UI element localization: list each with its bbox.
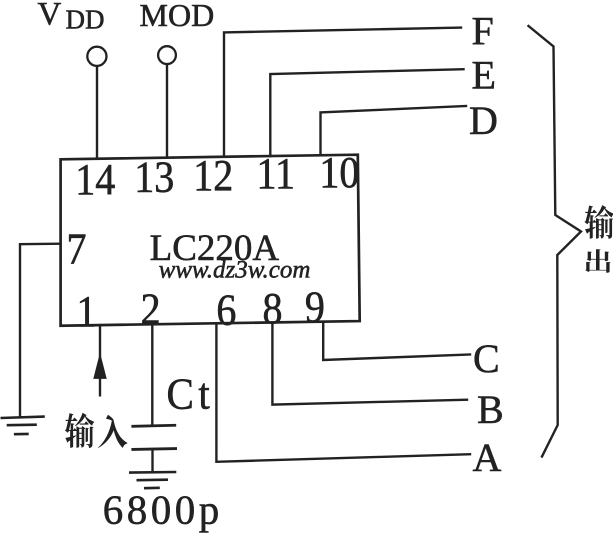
svg-text:1: 1 <box>76 287 96 337</box>
svg-text:Ct: Ct <box>167 370 215 419</box>
wire pin14 to VDD terminal <box>96 67 98 159</box>
wire pin12 to F <box>224 28 461 157</box>
input arrow on pin1 <box>94 355 106 379</box>
wire capacitor to ground <box>151 449 153 472</box>
wire pin8 to B <box>272 322 467 404</box>
svg-text:D: D <box>469 98 498 143</box>
svg-text:8: 8 <box>262 284 282 334</box>
IC U1 LC220A body <box>61 155 360 326</box>
svg-text:F: F <box>472 9 494 54</box>
svg-text:C: C <box>473 336 500 381</box>
wire pin11 to E <box>270 69 463 156</box>
svg-text:14: 14 <box>75 155 115 205</box>
label 输出 (output) <box>584 205 613 273</box>
svg-text:A: A <box>473 435 502 480</box>
svg-text:10: 10 <box>319 148 359 198</box>
wire pin9 to C <box>323 322 470 360</box>
svg-text:E: E <box>472 53 496 98</box>
wire pin10 to D <box>321 106 467 155</box>
svg-text:9: 9 <box>305 282 325 332</box>
capacitor Ct top plate <box>133 425 175 426</box>
wire pin13 to MOD terminal <box>166 65 168 158</box>
svg-text:www.dz3w.com: www.dz3w.com <box>159 257 311 284</box>
svg-text:7: 7 <box>66 224 86 274</box>
svg-text:DD: DD <box>66 4 105 34</box>
svg-text:13: 13 <box>134 152 174 202</box>
svg-text:11: 11 <box>256 149 295 199</box>
svg-text:B: B <box>477 387 504 432</box>
svg-text:12: 12 <box>193 151 233 201</box>
wire pin6 to A <box>216 323 470 462</box>
output brace <box>529 26 582 457</box>
wire pin1 input stub <box>99 325 101 395</box>
capacitor Ct bottom plate <box>133 447 176 451</box>
VDD terminal circle <box>87 47 106 66</box>
svg-text:V: V <box>38 0 62 33</box>
MOD terminal circle <box>158 46 176 64</box>
svg-text:2: 2 <box>141 285 161 335</box>
ground (left, pin7) <box>1 417 45 435</box>
svg-text:MOD: MOD <box>140 0 215 33</box>
label 输入 (input) <box>65 413 128 448</box>
wire pin7 to ground <box>20 244 61 417</box>
svg-text:6: 6 <box>216 285 236 335</box>
wire pin2 to capacitor <box>151 324 153 424</box>
svg-text:6800p: 6800p <box>103 487 223 533</box>
ground (capacitor) <box>129 472 176 488</box>
